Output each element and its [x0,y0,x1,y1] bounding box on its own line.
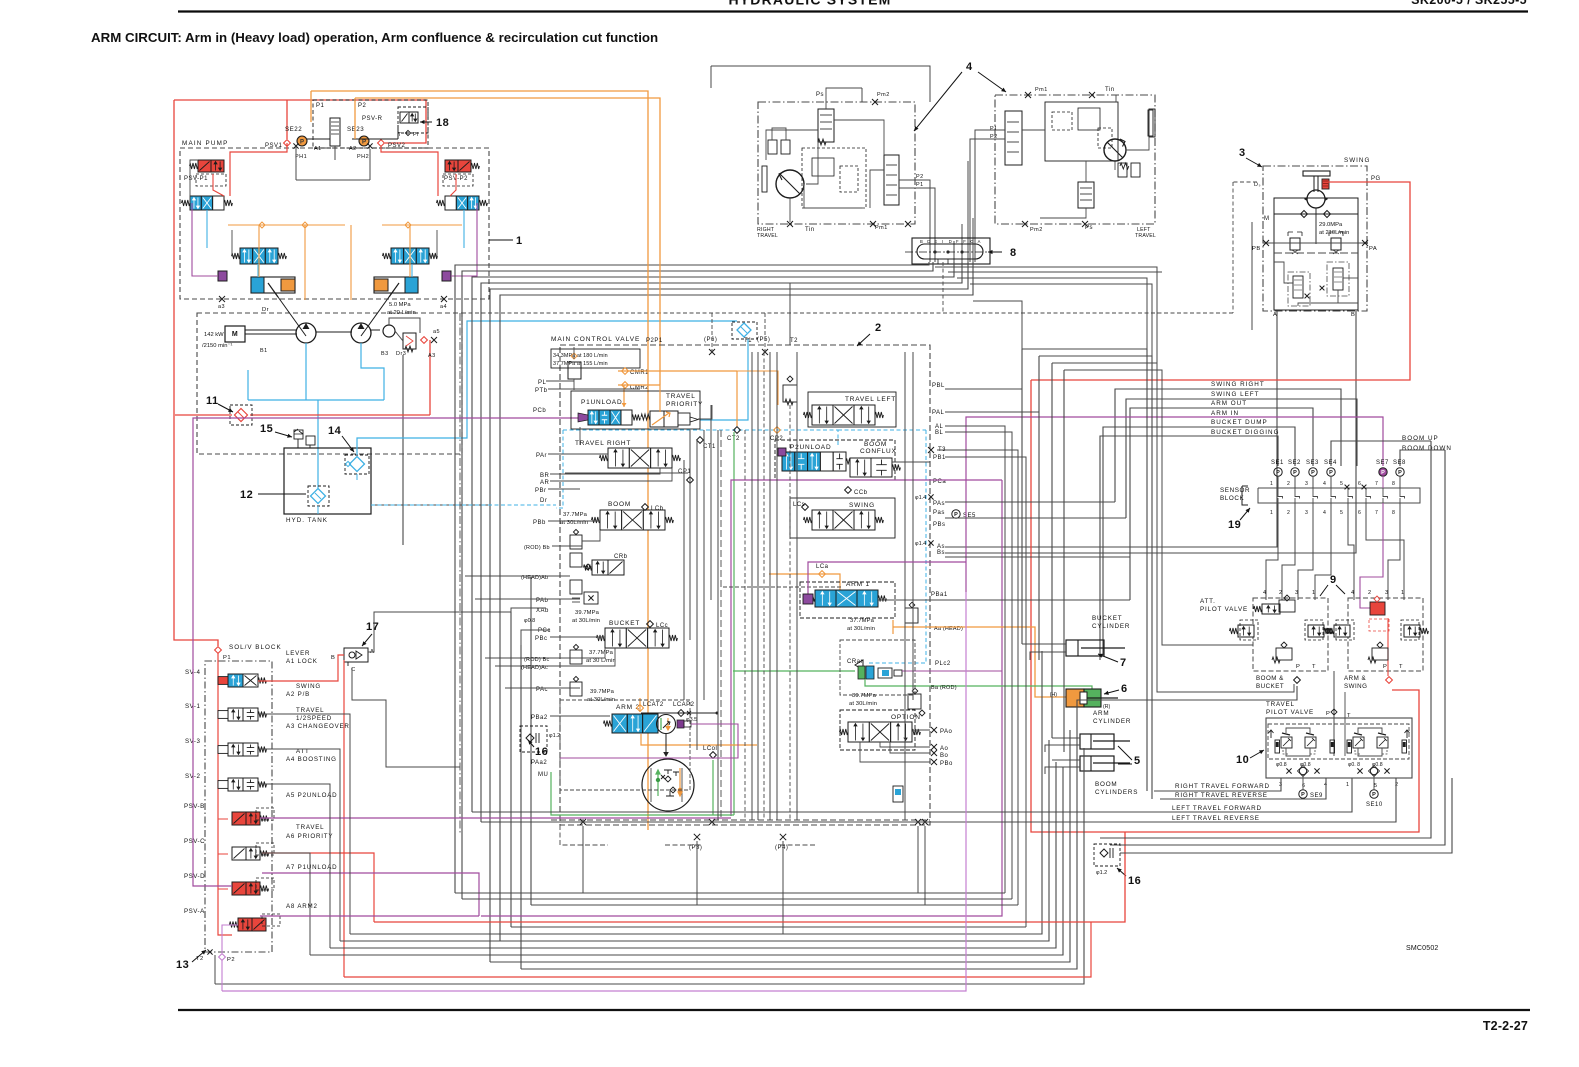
arm cylinder [1066,689,1084,707]
hydraulic tank [284,448,371,514]
P1 pilot box dashed [313,100,428,148]
swing port line [1263,242,1368,244]
pilot line red [429,340,431,415]
red feed inside block [218,653,232,935]
BOOM valve [600,510,622,530]
svg-text:at 20 L/min: at 20 L/min [387,310,416,316]
solenoid valve SV-4 [228,674,243,687]
svg-text:PH2: PH2 [357,154,369,160]
svg-text:P: P [1326,711,1330,717]
svg-text:2: 2 [1368,590,1372,596]
swivel right distribution runs [935,267,1157,363]
svg-text:LEFT TRAVEL REVERSE: LEFT TRAVEL REVERSE [1172,815,1260,822]
orange pilot supply lines [311,91,648,371]
svg-text:TRAVEL LEFT: TRAVEL LEFT [845,396,896,403]
port a3 [219,296,225,302]
prop solenoid valve PSV-D [232,882,246,895]
svg-text:P: P [300,140,304,146]
svg-text:SE10: SE10 [1366,802,1383,808]
mcv interior tall verticals [696,440,698,750]
sensor SE23 [359,136,369,146]
svg-text:1: 1 [1346,782,1350,788]
solenoid valve block box [205,661,272,952]
PSV-D output purple [262,873,479,916]
svg-text:I: I [942,239,943,244]
arm2 recirculation circle [657,715,676,734]
svg-text:CMR2: CMR2 [630,385,649,391]
SE7 purple drop to att valve [1360,503,1383,608]
drive shaft [245,329,297,331]
svg-text:SWING: SWING [849,502,875,509]
BOOM CONFLUX valve [850,458,871,477]
svg-text:PBo: PBo [940,761,953,767]
svg-text:CYLINDER: CYLINDER [1093,718,1131,725]
svg-text:A: A [978,239,981,244]
svg-text:SWING RIGHT: SWING RIGHT [1211,381,1265,388]
mcv dashed pilot drops [711,313,713,352]
svg-text:Ao: Ao [940,746,949,752]
svg-text:MAIN CONTROL VALVE: MAIN CONTROL VALVE [551,336,640,343]
svg-text:PBc: PBc [535,636,548,642]
arm in purple riser bottom [965,562,967,592]
svg-text:a5: a5 [433,329,440,335]
header rule [178,10,1528,12]
svg-text:φ3.5: φ3.5 [686,717,697,723]
mcv interior left verticals [579,427,581,445]
svg-text:PSV2: PSV2 [388,143,406,149]
svg-text:(P4): (P4) [775,845,788,851]
left travel motor circle [1104,139,1126,161]
svg-text:D: D [927,239,930,244]
ARM 1 valve [815,590,836,607]
svg-text:SENSOR: SENSOR [1220,487,1250,494]
svg-text:P: P [954,512,958,518]
As Bs extra stubs [945,537,958,539]
solenoid valve SV-3 [228,743,243,756]
svg-text:Ba (ROD): Ba (ROD) [931,685,957,691]
svg-text:3: 3 [1305,481,1308,487]
svg-text:φ1.4: φ1.4 [915,495,926,501]
svg-text:P: P [1276,470,1280,476]
prop solenoid valve PSV-C [232,847,246,860]
svg-text:TRAVEL: TRAVEL [1266,701,1295,708]
svg-text:TRAVEL: TRAVEL [296,707,324,714]
callout 1 [489,239,513,241]
svg-text:M: M [1264,216,1270,222]
bucket cylinder lines [1022,643,1066,645]
nested travel supply runs [455,262,929,893]
svg-text:A6 PRIORITY: A6 PRIORITY [286,833,333,840]
pressure sensor SE1 [1274,468,1282,476]
boom section relief valves [570,535,582,549]
CMR orange wires [618,370,737,372]
mcv spec box [551,349,640,368]
LCa check [819,571,826,578]
pump regulator left PSV-P1 [198,160,211,172]
svg-text:P2: P2 [227,957,235,963]
right side nested returns [1100,441,1431,838]
bucket dump pilot line [1103,427,1295,655]
svg-text:LCs: LCs [793,502,805,508]
svg-text:17: 17 [366,621,379,633]
bottom red return line [374,832,1125,922]
svg-text:3: 3 [1295,590,1299,596]
svg-text:SWING: SWING [1344,157,1370,164]
svg-text:M: M [232,331,238,338]
svg-text:B1: B1 [260,348,268,354]
swing A B lines down [945,311,1277,547]
svg-text:SWING: SWING [1344,683,1367,690]
tank outlet gray lines [371,505,490,510]
red return line with filter 11 [175,414,232,416]
red riser to SOL/V block [174,100,218,646]
svg-text:Ps: Ps [816,92,824,98]
svg-text:CYLINDER: CYLINDER [1092,623,1130,630]
arm swing P red diamond [1386,677,1393,684]
svg-text:3: 3 [1239,147,1246,159]
svg-text:P1: P1 [316,103,325,109]
svg-text:P: P [1311,470,1315,476]
svg-text:SMC0502: SMC0502 [1406,945,1439,952]
right travel gray wires [766,130,818,160]
svg-text:19: 19 [1228,519,1241,531]
svg-text:at 210L/min: at 210L/min [1319,230,1349,236]
servo piston right [374,277,418,293]
svg-text:at 30L/min: at 30L/min [849,701,877,707]
svg-text:SE22: SE22 [285,126,302,133]
svg-text:P2P1: P2P1 [646,338,663,344]
PCb purple input [193,418,578,886]
left travel port plate [1149,109,1155,137]
svg-text:ATT.: ATT. [1200,598,1216,605]
svg-text:P2UNLOAD: P2UNLOAD [790,444,831,451]
svg-text:T2: T2 [196,956,204,962]
green arm rod line [733,670,855,672]
swing internal wires [1274,262,1293,283]
callout 11 [218,404,233,412]
travel pilot valve inner dashed [1268,724,1409,759]
right travel port lines [899,180,930,241]
svg-text:Dr: Dr [540,498,547,504]
svg-text:(P5): (P5) [757,337,770,343]
svg-text:P1: P1 [990,126,998,132]
lock valve C line [352,668,460,767]
svg-text:P: P [1293,470,1297,476]
suction cyan line to T1 [357,321,737,455]
pump internal orange distribution right [382,224,462,226]
svg-text:SE4: SE4 [1324,460,1337,466]
prop solenoid valve PSV-B [232,812,246,825]
svg-text:TRAVEL: TRAVEL [757,233,778,239]
pump internal red wires left [230,143,287,196]
travel pilot left risers [1022,349,1147,791]
bottom salmon line [344,922,1091,977]
svg-text:34.3MPa at 180 L/min: 34.3MPa at 180 L/min [553,353,608,359]
boom bucket reducers [1262,604,1280,614]
svg-text:F: F [963,239,966,244]
svg-text:PTb: PTb [535,388,548,394]
svg-text:A4 BOOSTING: A4 BOOSTING [286,756,337,763]
svg-text:P: P [1398,470,1402,476]
swing left pilot line [1126,399,1357,518]
svg-text:φ1.2: φ1.2 [1096,870,1107,876]
swivel axis line [905,251,998,253]
red riser down right side [1031,380,1419,832]
svg-text:at 30L/min: at 30L/min [847,626,875,632]
TRAVEL PRIORITY valve [650,411,664,427]
LCc check [647,621,654,628]
svg-text:(P3): (P3) [689,845,702,851]
swing M drain line [1251,222,1253,330]
PSV2 check diamond [378,140,385,147]
svg-text:/2150 min⁻¹: /2150 min⁻¹ [202,343,233,349]
travel pv shuttle right [1370,767,1377,774]
mcv bottom dashed border [551,819,930,821]
svg-text:PILOT VALVE: PILOT VALVE [1200,606,1248,613]
svg-text:PLc2: PLc2 [935,661,951,667]
svg-text:PSV-B: PSV-B [184,803,205,810]
pump internal orange distribution left [228,224,345,226]
pilot reducing valve [330,118,340,146]
solenoid valve SV-2 [228,778,243,791]
svg-text:PAs: PAs [933,501,945,507]
svg-text:MU: MU [538,772,548,778]
pump internal purple wires left [192,203,218,276]
tank breather 15 [294,430,303,439]
rotated label left travel [1148,110,1153,136]
svg-text:SK200-5 / SK255-5: SK200-5 / SK255-5 [1411,0,1527,7]
cyan dashed pilot network [563,430,838,445]
svg-text:LCol: LCol [703,746,717,752]
PSV1 check diamond [284,140,291,147]
CT1 check [697,437,704,444]
svg-text:Dr: Dr [262,307,269,313]
swing brake red valve [1322,179,1329,189]
svg-text:LCb: LCb [651,506,664,512]
svg-text:PBL: PBL [932,383,945,389]
svg-text:2: 2 [1279,590,1283,596]
svg-text:Dr3: Dr3 [396,351,406,357]
mcv left port lines to bundle [531,546,552,577]
svg-text:SE3: SE3 [1306,460,1319,466]
pump internal red wires right [381,146,438,196]
option relief [908,694,921,709]
CP1 check [687,477,694,484]
svg-text:14: 14 [328,425,342,437]
svg-text:1/2SPEED: 1/2SPEED [296,715,332,722]
svg-text:PA: PA [1369,246,1377,252]
swing port plate [1303,171,1330,176]
svg-text:A2 P/B: A2 P/B [286,691,310,698]
svg-text:PCc: PCc [538,628,551,634]
PAa2 light purple line [560,724,738,758]
svg-text:6: 6 [1302,783,1306,789]
att to travel pv connector [1333,671,1335,756]
sensor block to att valve drops [1266,503,1278,600]
svg-text:2: 2 [875,322,882,334]
swing motor box [1263,166,1367,311]
P1 inlet diamond [215,647,222,654]
svg-text:PSV-R: PSV-R [362,116,383,122]
svg-text:at 30L/min: at 30L/min [572,618,600,624]
travel run drops to bottom [1021,349,1023,644]
red supply line top [174,99,426,101]
svg-text:PRIORITY: PRIORITY [666,401,703,408]
CP2 check [774,427,781,434]
green LCol riser [712,760,714,815]
swash plate arrows [273,290,306,336]
svg-text:SE8: SE8 [1393,460,1406,466]
CT2 check [734,427,741,434]
left travel motor box [995,95,1155,224]
svg-text:B: B [920,239,923,244]
svg-text:PSV-A: PSV-A [184,908,205,915]
svg-text:Pm2: Pm2 [1030,227,1043,233]
svg-text:CYLINDERS: CYLINDERS [1095,789,1138,796]
right travel brake valve [818,109,834,142]
pilot pump output line [389,318,420,333]
svg-text:CONFLUX: CONFLUX [860,448,897,455]
swivel joint 8 [912,238,990,264]
svg-text:SWING: SWING [296,683,321,690]
swing anti-cavitation valve left [1288,272,1310,306]
main pump assembly box [180,148,489,299]
svg-text:T: T [1399,664,1403,670]
travel pv P T ports [1331,709,1337,715]
svg-text:PBa2: PBa2 [531,715,548,721]
svg-text:MAIN PUMP: MAIN PUMP [182,140,228,147]
TRAVEL RIGHT valve [608,448,629,468]
swivel riser lines [961,224,963,262]
svg-text:T: T [398,132,402,138]
svg-text:D: D [949,239,952,244]
svg-text:BR: BR [540,473,550,479]
suction check valve 14 [345,455,369,474]
svg-text:φ0.8: φ0.8 [524,618,535,624]
swing dashed pilot Ds line [1233,181,1257,183]
T1 inlet filter [732,322,757,339]
boom cylinder lines [1052,737,1080,739]
option port lines right [948,730,1070,738]
svg-text:HYDRAULIC SYSTEM: HYDRAULIC SYSTEM [728,0,891,8]
svg-text:PBa1: PBa1 [931,592,948,598]
svg-text:8: 8 [1010,247,1017,259]
sensor pin stub wires [1345,485,1350,490]
svg-text:PAL: PAL [932,410,945,416]
swivel dashed drop [942,262,944,313]
PSV-R valve [398,107,428,133]
svg-text:13: 13 [176,959,189,971]
PSV-B purple output A5 [260,817,731,819]
recirculation orifice 16 [520,726,547,752]
svg-text:BUCKET: BUCKET [1256,683,1284,690]
svg-text:6: 6 [1358,481,1361,487]
right travel motor circle [776,170,804,198]
main control valve outer dashed box [560,345,930,825]
LCol check [710,752,717,759]
svg-text:LCAT2: LCAT2 [643,702,664,708]
travel pv dashed brackets [1283,750,1387,754]
svg-text:C: C [970,239,973,244]
svg-text:LCc: LCc [656,623,668,629]
pilot square left [218,271,227,281]
svg-text:P2: P2 [916,174,924,180]
svg-text:TRAVEL: TRAVEL [296,824,324,831]
svg-text:PBb: PBb [533,520,546,526]
svg-text:1: 1 [1270,510,1273,516]
long dashed line to MCV [462,312,1233,314]
cyan drain lines from pumps [305,343,307,400]
svg-text:Pi: Pi [413,132,419,138]
sensor SE9 [1299,790,1307,798]
svg-text:P1: P1 [916,182,924,188]
solenoid valve SV-1 [228,708,243,721]
callout 14 [342,436,354,452]
svg-text:5.0 MPa: 5.0 MPa [389,302,411,308]
svg-text:4: 4 [1323,510,1326,516]
svg-text:SE2: SE2 [1288,460,1301,466]
svg-text:PBr: PBr [535,488,547,494]
pilot square right [442,271,451,281]
cyan pilot line into mcv [700,339,748,420]
svg-text:P: P [1296,664,1300,670]
svg-text:Bs: Bs [937,550,945,556]
swing check valves [1301,211,1308,218]
mcv dashed partition [723,586,843,588]
tank cyan dashed return [371,504,556,506]
svg-text:CT1: CT1 [703,444,716,450]
svg-text:PSV1: PSV1 [265,143,283,149]
svg-text:1: 1 [1312,590,1316,596]
outer enclosure dash-dot left [459,313,461,835]
svg-text:7: 7 [1375,510,1378,516]
svg-text:Pm1: Pm1 [875,225,888,231]
green recirculation line [733,432,735,815]
svg-text:φ0. 8: φ0. 8 [1348,762,1360,768]
arm out pilot line [1130,408,1313,600]
pump regulator valve left [190,196,201,210]
mcv bottom drops to bundle [582,826,584,893]
pilot gauge line [307,122,398,137]
pilot relief red diamond [421,337,428,344]
LCb check [642,504,649,511]
travel pv cartridges [1275,740,1280,753]
svg-text:39.7MPa: 39.7MPa [590,689,615,695]
svg-text:ARM &: ARM & [1344,675,1366,682]
red branch PSV2 [385,100,426,143]
svg-text:P: P [1329,470,1333,476]
BUCKET valve [605,628,626,648]
bucket cylinder feed risers [1021,349,1023,389]
svg-text:37.7MPa: 37.7MPa [589,650,614,656]
swing section box [790,498,895,538]
svg-text:AR: AR [540,480,550,486]
mcv lower section box [560,700,690,790]
svg-text:(P6): (P6) [704,337,717,343]
right travel relief pair [768,140,777,154]
svg-text:BUCKET DUMP: BUCKET DUMP [1211,419,1268,426]
mcv inlet component [568,362,581,379]
svg-text:PAo: PAo [940,729,953,735]
svg-text:A8 ARM2: A8 ARM2 [286,903,318,910]
callout 18 [420,121,432,123]
travel pilot lines [1154,778,1281,791]
lever lock valve 17 [344,648,368,662]
pressure sensor SE2 [1291,468,1299,476]
left travel port lines to swivel [975,130,1005,241]
svg-text:T2-2-27: T2-2-27 [1483,1019,1528,1033]
travel priority orange pilot down [659,385,661,412]
